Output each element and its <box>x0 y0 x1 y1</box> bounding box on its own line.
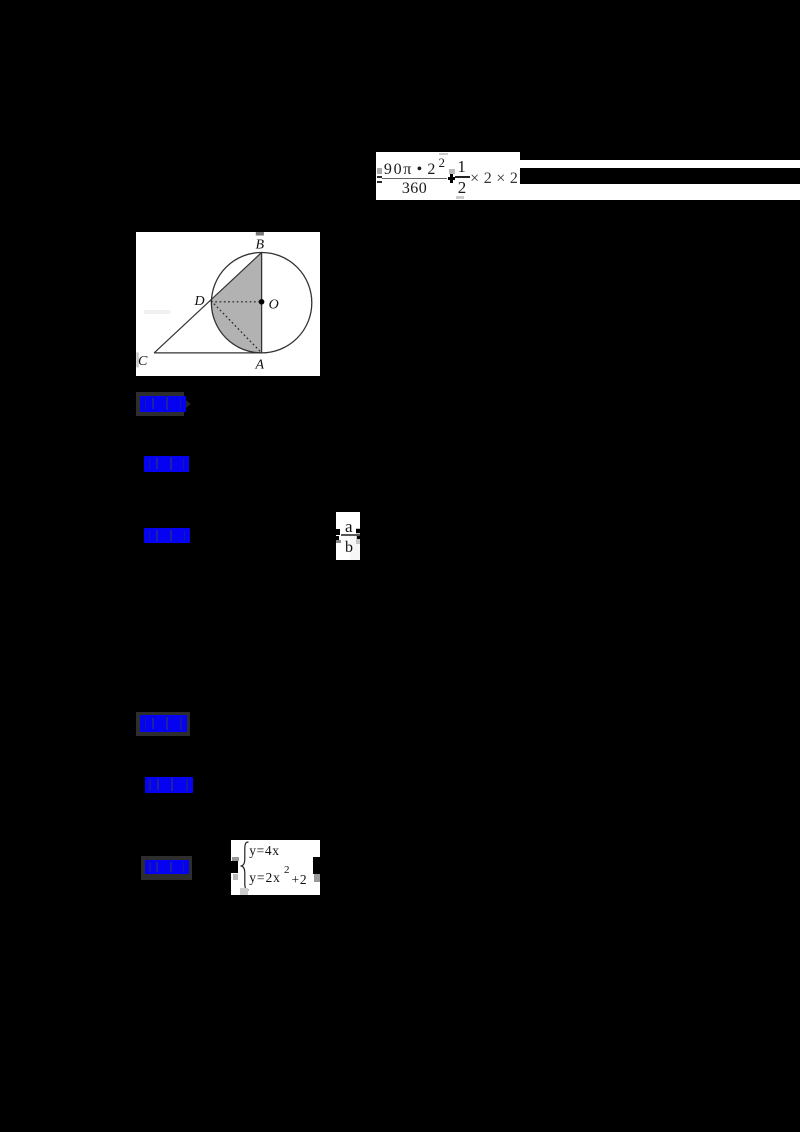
label 3 blue blob <box>144 528 190 543</box>
grey nub left edge near C <box>136 352 138 367</box>
label 2 blue blob <box>144 456 189 473</box>
label 1 arrow <box>186 400 191 408</box>
svg-text:B: B <box>256 238 265 253</box>
exponent 2 <box>284 866 292 875</box>
label 4 dark backing <box>136 712 190 736</box>
grey nub right <box>356 528 360 544</box>
grey artifact below right fragment <box>314 874 321 882</box>
denominator 360 <box>402 181 430 197</box>
line C to B <box>154 253 262 353</box>
a over b fraction box <box>336 512 360 560</box>
black fragments right <box>356 529 360 532</box>
white background <box>136 232 320 376</box>
numerator 90pi.2^2 <box>384 162 444 178</box>
exponent 2 of numerator <box>438 156 447 169</box>
svg-text:A: A <box>255 358 265 373</box>
fraction bar <box>341 534 360 535</box>
left curly brace <box>240 841 250 891</box>
faint smudge <box>144 310 170 314</box>
line highlight stripe 2 <box>520 184 800 199</box>
plus sign fragment <box>448 177 455 180</box>
svg-text:C: C <box>138 354 148 369</box>
label 6 dark backing <box>141 856 192 880</box>
formula white box <box>376 152 520 200</box>
grey artifact above equals <box>377 168 382 174</box>
label 1 blue blob <box>140 396 186 413</box>
black fragment right <box>313 857 320 875</box>
letter a <box>345 519 357 534</box>
letter b <box>345 540 357 555</box>
black fragments left <box>336 529 340 535</box>
equals sign fragment <box>377 176 383 178</box>
grey artifact above exponent <box>439 153 448 155</box>
plus 2 <box>291 874 310 886</box>
times 2 times 2 <box>470 172 522 186</box>
diameter B to A <box>261 253 263 353</box>
shaded region B-D-arc-A <box>211 253 262 353</box>
center dot O <box>259 299 265 305</box>
circle O <box>211 253 311 353</box>
fraction 2 bar <box>455 176 470 178</box>
fraction 1 bar <box>382 178 447 179</box>
fraction 2 denominator 2 <box>458 180 468 196</box>
black fragment left <box>231 861 238 873</box>
label 1 dark backing <box>136 392 185 416</box>
equation y=2x <box>249 871 285 884</box>
fraction 2 numerator 1 <box>457 159 467 175</box>
grey artifact above plus <box>449 169 455 175</box>
line C to A <box>154 352 262 354</box>
grey artifact below left fragment <box>233 874 238 879</box>
equation y=4x <box>249 845 281 857</box>
grey artifact above left fragment <box>232 857 239 861</box>
grey square bottom left <box>240 888 248 895</box>
dotted D to O <box>211 301 262 303</box>
line highlight stripe 1 <box>520 160 800 168</box>
grey artifacts below fraction 2 <box>456 196 465 199</box>
label 5 blue blob <box>145 777 193 793</box>
light grey lower right region <box>350 536 360 560</box>
grey nub above B <box>256 232 264 236</box>
formula content <box>376 152 520 200</box>
dotted D to A <box>211 301 262 353</box>
system of equations white box <box>231 840 320 895</box>
svg-text:D: D <box>194 294 205 309</box>
svg-text:O: O <box>269 298 279 313</box>
label 6 blue blob <box>145 860 190 874</box>
geometry figure white box <box>136 232 320 381</box>
label 4 blue blob <box>140 715 187 732</box>
